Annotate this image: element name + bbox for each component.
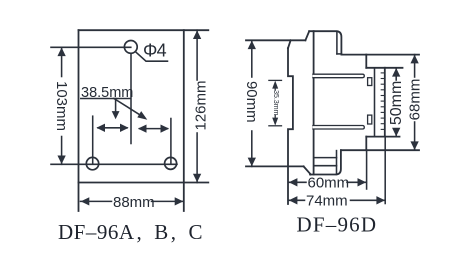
svg-text:35.3mm: 35.3mm: [272, 90, 279, 115]
60mm dimension line: [289, 181, 306, 183]
bezel top edge + 90mm top extension: [246, 39, 305, 41]
35.3mm dimension ticks: [269, 79, 282, 81]
terminal clip small rect lower: [368, 115, 372, 124]
panel outline top edge (extended right for 126mm extension): [79, 29, 209, 31]
svg-text:DF–96D: DF–96D: [297, 213, 378, 237]
centre line down from phi4 circle: [130, 53, 132, 143]
double arrow left (hole to centre): [98, 127, 127, 129]
double arrow right (centre to hole): [140, 128, 168, 130]
case rear face upper: [365, 55, 367, 68]
panel outline left edge (extended down for 88mm extension): [78, 30, 80, 211]
bottom clip ridge lines: [314, 157, 337, 159]
68mm dimension line: [414, 55, 416, 77]
svg-text:Φ4: Φ4: [143, 41, 167, 61]
extension line through phi4 circle (103mm top): [51, 46, 131, 48]
extension line up from left hole: [92, 116, 94, 163]
bezel bottom edge + 90mm bottom extension: [246, 165, 304, 167]
svg-text:DF–96A,B,C: DF–96A,B,C: [58, 220, 203, 244]
88mm dimension line: [81, 200, 112, 202]
terminal screw ticks: [381, 73, 385, 129]
svg-text:126mm: 126mm: [193, 80, 210, 130]
35.3mm dimension line: [274, 88, 276, 90]
terminal clip small rect upper: [368, 78, 372, 86]
38.5mm leader arrow vertical: [115, 99, 117, 113]
leader line from phi4 circle: [135, 52, 167, 62]
top clip inner wall: [336, 31, 338, 54]
103mm dimension line: [61, 47, 63, 76]
60mm right extension: [366, 150, 368, 189]
svg-text:90mm: 90mm: [243, 81, 260, 123]
terminal block top + 50mm top extension: [366, 67, 402, 69]
bezel bottom chamfer to clip: [304, 166, 311, 174]
panel outline bottom edge (extended right): [79, 182, 209, 184]
bezel front top chamfer: [288, 40, 291, 48]
74mm right extension: [384, 137, 386, 204]
bezel rear face: [313, 31, 315, 174]
svg-text:103mm: 103mm: [53, 81, 70, 131]
bottom clip inner wall: [336, 151, 338, 175]
svg-text:60mm: 60mm: [308, 175, 350, 192]
top mounting clip outline: [309, 31, 341, 54]
38.5mm leader arrow diagonal: [114, 99, 143, 117]
panel outline right edge (extended down): [183, 30, 185, 211]
hole centre line horizontal (103mm bottom): [51, 163, 177, 165]
upper pin rod: [313, 74, 364, 78]
case bottom edge + 68mm bottom extension: [341, 149, 419, 151]
hole circle phi4: [124, 41, 137, 54]
74mm dimension line: [289, 199, 305, 201]
mounting hole left: [86, 157, 98, 169]
lower pin rod: [313, 126, 364, 130]
126mm dimension line: [196, 30, 198, 80]
svg-text:50mm: 50mm: [388, 81, 405, 125]
terminal block inner wall: [374, 68, 376, 137]
38.5mm underline: [81, 98, 130, 100]
bottom mounting clip outline: [310, 150, 341, 174]
svg-text:88mm: 88mm: [113, 194, 155, 211]
50mm dimension line: [395, 68, 397, 80]
extension line up from right hole: [170, 119, 172, 164]
90mm dimension line: [251, 40, 253, 77]
svg-text:74mm: 74mm: [306, 193, 348, 210]
terminal block right face: [384, 68, 386, 137]
case rear face lower: [365, 137, 367, 151]
bezel top chamfer to clip: [305, 31, 309, 40]
svg-text:68mm: 68mm: [407, 79, 424, 121]
svg-text:38.5mm: 38.5mm: [81, 85, 133, 101]
terminal block bottom + 50mm bottom extension: [366, 136, 399, 138]
bezel front face with window bump and lower extension: [288, 48, 293, 204]
mounting hole right: [165, 157, 177, 169]
case top edge + 68mm top extension: [341, 54, 419, 56]
